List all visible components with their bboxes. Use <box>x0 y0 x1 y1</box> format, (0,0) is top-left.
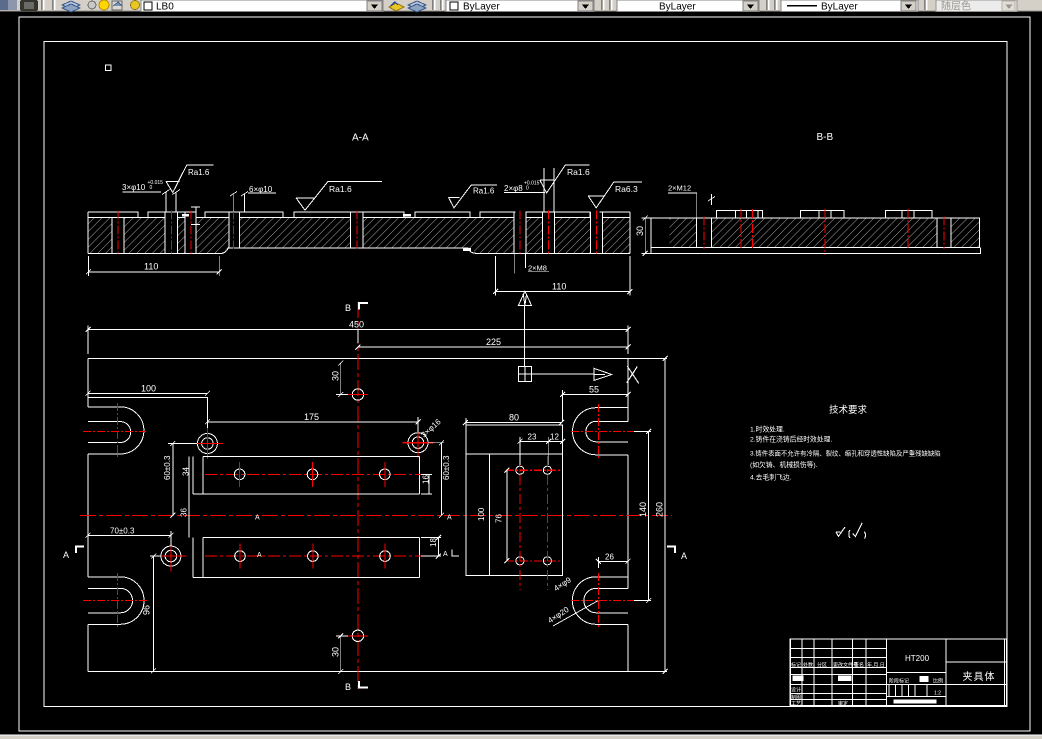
svg-text:2×M8: 2×M8 <box>528 264 547 273</box>
middle small cells <box>889 684 927 696</box>
dimension 70 <box>86 531 174 546</box>
locating pin 3 <box>161 546 181 566</box>
svg-text:B-B: B-B <box>817 132 834 143</box>
ucs icon <box>518 291 638 383</box>
svg-text:110: 110 <box>144 262 158 272</box>
upper rail centerline <box>205 473 428 475</box>
2xphi8 extension lines <box>544 168 554 212</box>
ucs X-axis arrowhead <box>594 368 612 380</box>
svg-text:Ra1.6: Ra1.6 <box>473 187 495 196</box>
section B-B <box>635 132 981 256</box>
dimension 260 <box>628 356 668 674</box>
color combo <box>446 0 594 12</box>
part bottom edge <box>88 671 628 673</box>
sun icon <box>99 0 109 10</box>
dimension 30 top <box>336 361 348 398</box>
svg-text:分区: 分区 <box>817 662 827 669</box>
svg-text:18: 18 <box>429 538 438 547</box>
svg-text:标记: 标记 <box>791 662 801 669</box>
toolbar background <box>0 0 1042 12</box>
svg-text:34: 34 <box>182 467 191 476</box>
title block outer border <box>790 639 1007 706</box>
svg-text:1:2: 1:2 <box>934 691 941 697</box>
svg-text:140: 140 <box>638 502 648 517</box>
locating pin 1 <box>197 434 217 454</box>
svg-text:Ra1.6: Ra1.6 <box>329 184 352 194</box>
B-B bottom plate <box>651 247 980 253</box>
part left edge <box>87 359 89 672</box>
U-slot top-left <box>88 407 144 454</box>
right boss outline <box>466 425 563 575</box>
svg-text:A: A <box>443 551 448 558</box>
U-slot bottom-left centerlines <box>83 600 147 602</box>
layer combo <box>141 0 383 12</box>
bulb icon <box>88 1 96 9</box>
svg-text:110: 110 <box>552 282 566 292</box>
svg-text:A-A: A-A <box>352 133 369 144</box>
middle column horizontals <box>886 673 946 697</box>
svg-text:0: 0 <box>526 186 529 192</box>
U-slot top-right centerlines <box>571 430 634 432</box>
svg-text:B: B <box>345 303 351 313</box>
A-A bar left and right edges <box>88 212 630 254</box>
svg-text:26: 26 <box>605 552 614 561</box>
toolbar strip top <box>0 0 1042 13</box>
svg-text:技术要求: 技术要求 <box>829 404 868 416</box>
svg-text:2×φ8: 2×φ8 <box>504 184 523 193</box>
roughness Ra1.6 no3 <box>449 185 498 208</box>
U-slot top-right <box>573 408 628 455</box>
svg-text:70±0.3: 70±0.3 <box>110 526 135 535</box>
svg-text:ByLayer: ByLayer <box>821 2 858 13</box>
svg-text:260: 260 <box>655 502 665 517</box>
svg-text:A: A <box>255 515 260 522</box>
ucs origin box <box>518 366 531 381</box>
dimension 16 <box>421 474 432 494</box>
dimension 34 <box>188 456 190 494</box>
svg-text:100: 100 <box>141 383 156 393</box>
U-slot bottom-right centerlines <box>571 600 634 602</box>
plotstyle combo disabled <box>936 0 1017 12</box>
ucs Y-axis shaft <box>524 305 526 366</box>
svg-text:2.铸件在浇铸后经时效处理.: 2.铸件在浇铸后经时效处理. <box>750 434 832 443</box>
dimension 30 bottom <box>336 633 348 674</box>
B-B pad slot marks <box>735 210 914 218</box>
upper rail holes <box>234 462 390 487</box>
plan view <box>63 302 687 692</box>
roughness Ra1.6 no2 <box>296 182 382 211</box>
part top edge <box>88 358 628 360</box>
svg-text:Ra1.6: Ra1.6 <box>188 168 210 177</box>
lineweight combo <box>781 0 918 12</box>
separator <box>601 0 603 10</box>
svg-text:96: 96 <box>142 605 152 615</box>
svg-text:450: 450 <box>349 320 364 330</box>
svg-text:审定: 审定 <box>838 700 848 707</box>
svg-text:80: 80 <box>509 413 519 423</box>
A-A red hole centerlines <box>118 211 596 256</box>
dimension 140 <box>634 429 651 603</box>
svg-text:比例: 比例 <box>933 678 943 685</box>
lower slot rail <box>193 537 419 577</box>
U-slot bottom-left <box>88 577 144 625</box>
lower rail centerline <box>205 555 428 557</box>
dimension 55 <box>560 390 630 421</box>
A-A hole gaps (black) <box>113 212 602 253</box>
svg-text:Ra6.3: Ra6.3 <box>615 184 638 194</box>
svg-text:年.月.日: 年.月.日 <box>867 662 885 669</box>
dimension 30 B-B left <box>642 216 652 256</box>
finish marks <box>836 523 865 539</box>
svg-text:LB0: LB0 <box>156 2 174 13</box>
svg-text:225: 225 <box>486 337 501 347</box>
A-A tiny chamfer notes <box>182 214 471 251</box>
svg-text:夹具体: 夹具体 <box>963 670 996 683</box>
svg-text:60±0.3: 60±0.3 <box>163 455 172 480</box>
tech requirements <box>750 404 941 539</box>
color ball icon <box>131 1 140 10</box>
dimension 23 and 12 <box>517 437 565 465</box>
svg-text:30: 30 <box>331 647 341 657</box>
svg-text:A: A <box>447 515 452 522</box>
layers icon 1 <box>62 1 80 9</box>
svg-text:ByLayer: ByLayer <box>463 2 500 13</box>
dimension 60 right <box>428 440 444 518</box>
dimension 100 <box>86 359 210 396</box>
dimension 26 <box>596 557 631 568</box>
svg-text:55: 55 <box>589 385 599 395</box>
main horizontal centerline <box>80 514 672 516</box>
bottom command strip <box>0 735 1042 739</box>
svg-text:设计: 设计 <box>791 687 801 694</box>
B-B red hole centerlines <box>704 209 944 255</box>
A-A bar main top line <box>88 217 630 219</box>
svg-text:3×φ10: 3×φ10 <box>122 183 146 192</box>
roughness Ra1.6 no1 <box>166 165 214 192</box>
svg-text:A: A <box>257 552 262 559</box>
icon fragment left <box>0 0 8 10</box>
dimension 225 <box>355 330 630 350</box>
svg-text:12: 12 <box>550 432 559 441</box>
svg-text:A: A <box>681 551 687 561</box>
roughness Ra6.3 <box>588 182 642 208</box>
dimension 76 <box>504 468 509 564</box>
title block <box>790 639 1007 707</box>
dimension 36 <box>188 494 190 537</box>
B-B raised pads <box>717 210 932 218</box>
svg-text:Ra1.6: Ra1.6 <box>567 167 590 177</box>
A-A hole wall lines <box>112 212 602 254</box>
svg-text:76: 76 <box>495 514 504 523</box>
title block vertical dividers <box>802 639 1004 706</box>
ucs X-axis shaft <box>531 373 594 375</box>
right column horizontals <box>946 662 1007 685</box>
svg-text:签名: 签名 <box>854 662 864 669</box>
svg-text:4.去毛刺飞边.: 4.去毛刺飞边. <box>750 472 792 481</box>
pickbox square <box>106 65 112 71</box>
label 2xM8 <box>514 253 525 273</box>
svg-text:30: 30 <box>635 226 645 236</box>
separator <box>432 0 434 10</box>
A-A bar hatched body <box>88 218 630 254</box>
upper slot rail <box>193 456 419 494</box>
dimension 60 left <box>168 441 197 518</box>
A-A bar outline bottom <box>88 248 630 253</box>
svg-text:100: 100 <box>477 507 486 521</box>
svg-text:3.铸件表面不允许有冷隔、裂纹、缩孔和穿透性缺陷及严重残缺缺: 3.铸件表面不允许有冷隔、裂纹、缩孔和穿透性缺陷及严重残缺缺陷 <box>750 449 941 458</box>
section A-A <box>86 133 642 296</box>
separator <box>41 0 43 10</box>
A-A tiny pad height dim <box>191 207 200 225</box>
A-A raised pad profile <box>88 212 630 218</box>
svg-text:175: 175 <box>304 412 319 422</box>
svg-text:HT200: HT200 <box>905 654 930 663</box>
dimension 110 left <box>86 256 222 276</box>
svg-text:16: 16 <box>422 475 431 484</box>
layers icon 2 <box>408 1 426 9</box>
linetype combo <box>617 0 759 12</box>
bottom center hole <box>352 630 363 641</box>
svg-text:工艺: 工艺 <box>791 701 801 707</box>
U-slot bottom-right <box>572 577 628 625</box>
locating pin 2 <box>408 433 428 453</box>
lower rail holes <box>235 544 391 569</box>
dimension 18 <box>421 535 441 559</box>
top center hole <box>352 389 363 400</box>
separator <box>924 0 926 10</box>
part right edge <box>627 359 629 672</box>
svg-text:B: B <box>345 682 351 692</box>
svg-text:阶段标记: 阶段标记 <box>889 678 909 685</box>
platform edge lines <box>88 397 207 433</box>
left grid horizontal dividers <box>790 649 886 700</box>
svg-text:60±0.3: 60±0.3 <box>442 455 451 480</box>
B-B bar hatched body <box>669 218 979 247</box>
6xphi10 extension lines <box>230 192 248 213</box>
ucs X label <box>627 366 639 383</box>
boss inner step lines <box>466 454 563 575</box>
B-B hole gaps (black) <box>697 218 711 247</box>
3xphi10 extension lines <box>162 190 180 213</box>
lock icon <box>112 1 122 10</box>
dimension 80 <box>463 418 564 425</box>
roughness Ra1.6 no4 <box>540 165 590 193</box>
signature blobs <box>793 676 804 682</box>
header tiny texts <box>791 662 943 708</box>
svg-text:ByLayer: ByLayer <box>659 2 696 13</box>
svg-text:6×φ10: 6×φ10 <box>249 185 273 194</box>
dimension 110 right <box>493 256 632 296</box>
svg-text:0: 0 <box>150 185 153 191</box>
B-B hole wall lines <box>696 218 951 247</box>
svg-text:随层色: 随层色 <box>941 0 971 13</box>
make layer current icon <box>389 3 404 11</box>
svg-text:23: 23 <box>528 432 537 441</box>
svg-text:处数: 处数 <box>803 662 813 669</box>
main vertical centerline (B-B cut) <box>357 302 359 692</box>
U-slot top-left centerlines <box>83 430 146 432</box>
bottom white bar <box>894 699 937 703</box>
dimension 175 <box>205 417 421 433</box>
separator <box>766 0 768 10</box>
dark icon <box>20 0 38 11</box>
svg-text:1.时效处理.: 1.时效处理. <box>750 425 785 434</box>
ucs Y-axis arrowhead <box>519 291 532 305</box>
dimension 96 <box>150 554 161 674</box>
svg-text:制图: 制图 <box>791 694 801 701</box>
svg-text:2×M12: 2×M12 <box>668 184 691 193</box>
B-B bar outline <box>651 218 979 247</box>
boss holes <box>516 466 552 565</box>
svg-text:(如欠铸、机械损伤等).: (如欠铸、机械损伤等). <box>750 460 818 469</box>
svg-text:A: A <box>63 550 69 560</box>
svg-text:36: 36 <box>180 508 189 517</box>
leader to U-slot <box>553 601 598 627</box>
svg-text:30: 30 <box>331 371 341 381</box>
boss hole centerlines <box>506 456 561 590</box>
dimension 450 <box>86 326 631 355</box>
